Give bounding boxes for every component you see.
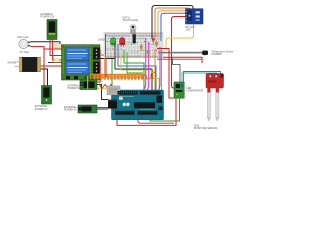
wire yellow PM3 to USB area bbox=[97, 87, 119, 89]
wire red G PM1 to relay bbox=[53, 40, 63, 61]
wire red arduino bottom to comparator area bbox=[138, 120, 174, 124]
wire orange2 to RTC bbox=[158, 11, 186, 40]
wire orange stub left bbox=[104, 58, 106, 76]
soil comparator module U3 bbox=[174, 82, 204, 98]
yellow tag W1 bbox=[55, 44, 61, 48]
wire red zigzag near PM3 bbox=[99, 84, 113, 89]
wire red F PM1 to relay bbox=[50, 40, 63, 56]
svg-text:LEADS: LEADS bbox=[98, 38, 106, 41]
wire black PM3 to arduino jack bbox=[97, 85, 108, 100]
DHT11 sensor U2 (button-like part) bbox=[123, 16, 140, 33]
svg-text:POWER 12V: POWER 12V bbox=[41, 16, 55, 19]
svg-text:POWER 5V: POWER 5V bbox=[68, 87, 81, 90]
wire black E transformer to power module 2 bbox=[41, 69, 48, 86]
wire green comparator to arduino bbox=[150, 98, 180, 121]
wire red D transformer to relay bbox=[41, 65, 63, 67]
wire black G2 to relay bbox=[48, 62, 63, 64]
yellow tag W2 bbox=[54, 59, 60, 63]
RTC module DS1307 bbox=[186, 9, 204, 32]
resistor R4 bbox=[155, 40, 157, 47]
wire gray to comparator bbox=[173, 58, 181, 82]
external power module PM3 (horizontal upper) bbox=[68, 80, 98, 91]
orange curly wire bus bbox=[90, 75, 146, 80]
wire red B plug down to power module 2 bbox=[31, 47, 45, 86]
wire blue to RTC bbox=[161, 13, 186, 41]
wire green relay to arduino top-left bbox=[100, 55, 112, 91]
svg-text:240VAC: 240VAC bbox=[8, 61, 17, 64]
wire red PM4 to jack bbox=[97, 107, 108, 109]
wire orange vertical to arduino bbox=[154, 49, 156, 91]
external power module PM4 (horizontal lower, to arduino jack) bbox=[64, 105, 97, 113]
svg-text:POWER 5V: POWER 5V bbox=[35, 108, 48, 111]
svg-text:DS18B20: DS18B20 bbox=[212, 53, 223, 56]
wire black to RTC bbox=[152, 6, 193, 40]
wire red relay to PM3 (down right edge) bbox=[97, 50, 100, 82]
capacitor C1 (black vertical on breadboard) bbox=[133, 34, 136, 44]
wire blue bus y66 bbox=[118, 44, 156, 91]
svg-text:MOISTURE SENSOR: MOISTURE SENSOR bbox=[194, 127, 218, 130]
Arduino Uno A1 bbox=[107, 86, 164, 120]
wire black relay to arduino via bus y69 bbox=[100, 59, 152, 92]
wire teal comparator to soil sensor bbox=[182, 73, 217, 82]
wire red stub left column bbox=[105, 34, 107, 57]
wire yellow RTC to breadboard bbox=[166, 24, 194, 50]
220V plug P1 bbox=[17, 36, 30, 54]
external power module PM2 (vertical bottom-left) bbox=[35, 86, 52, 111]
wire yellow bus y70 bbox=[121, 51, 159, 91]
resistor R2 bbox=[147, 49, 149, 56]
external power module PM1 (vertical top-left) bbox=[41, 13, 58, 40]
transformer T1 bbox=[8, 57, 41, 71]
wire black A plug to relay bbox=[31, 42, 61, 46]
wire magenta 2 bbox=[139, 42, 149, 112]
svg-text:Temp/Humidity: Temp/Humidity bbox=[123, 19, 140, 22]
wire black stub inside breadboard bbox=[114, 44, 116, 59]
wire green bus y63 bbox=[124, 50, 144, 91]
svg-text:220v Lead: 220v Lead bbox=[17, 36, 29, 39]
wire red C to relay bbox=[44, 48, 63, 50]
DS18B20 temperature probe cable bbox=[158, 50, 233, 56]
wire red y57 horizontal bbox=[163, 57, 202, 63]
resistor R3 bbox=[152, 36, 154, 44]
wire red to RTC / comparator bbox=[172, 17, 187, 89]
wire teal vertical bbox=[161, 50, 163, 91]
LED red D2 bbox=[120, 38, 125, 47]
soil moisture sensor bbox=[194, 74, 224, 131]
svg-text:POWER 9V: POWER 9V bbox=[64, 108, 77, 111]
svg-text:COMPARATOR: COMPARATOR bbox=[187, 89, 204, 92]
wire yellow PM3 crossing bbox=[87, 76, 89, 89]
wire red breadboard-left down bbox=[105, 58, 107, 77]
wire red parallel lower bbox=[157, 58, 202, 60]
wire magenta 1 bbox=[136, 38, 146, 112]
wire green2 bus y73 bbox=[127, 52, 143, 73]
wire segments crossing breadboard (overlay) bbox=[118, 33, 162, 58]
breadboard BB1 bbox=[104, 33, 163, 58]
wire violet bbox=[143, 47, 160, 112]
resistor R1 bbox=[140, 44, 142, 51]
wire blue comparator to soil sensor bbox=[184, 72, 221, 83]
relay module RLY1 (2 channel) bbox=[62, 45, 101, 80]
wire red long to comparator and arduino bottom bbox=[117, 49, 176, 126]
LED green D1 bbox=[111, 38, 116, 47]
svg-text:1307: 1307 bbox=[186, 28, 192, 31]
wire orange1 to RTC bbox=[155, 8, 190, 40]
wire black PM4 to jack bbox=[97, 108, 108, 110]
svg-text:AC Trafo: AC Trafo bbox=[20, 51, 30, 54]
